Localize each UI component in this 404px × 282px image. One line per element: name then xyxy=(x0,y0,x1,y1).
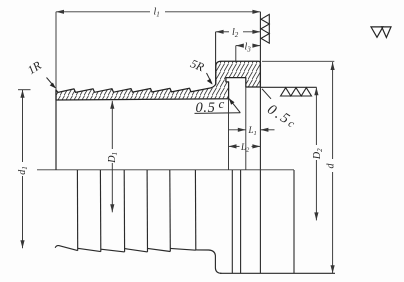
dim d1 xyxy=(18,90,31,249)
dim L1 xyxy=(229,128,275,132)
triangles on socket top xyxy=(281,88,312,96)
barrel left face xyxy=(55,90,57,170)
extension x=235.8 xyxy=(235,46,237,63)
dim D1 xyxy=(110,101,114,213)
svg-text:1R: 1R xyxy=(25,58,44,77)
roughness triangles stack (flange end face) xyxy=(261,14,269,43)
svg-text:d: d xyxy=(326,163,337,169)
corner mark two down triangles xyxy=(371,27,383,37)
svg-text:l2: l2 xyxy=(232,27,239,39)
extension line x=56 (l1 left) xyxy=(55,12,57,90)
dimension l1 xyxy=(56,10,260,14)
socket top line xyxy=(260,86,316,88)
svg-text:D2: D2 xyxy=(312,148,324,160)
socket bottom-half lines xyxy=(232,170,294,273)
extension x=228.5 xyxy=(228,99,230,170)
svg-text:c: c xyxy=(219,96,225,111)
svg-text:L1: L1 xyxy=(248,125,257,137)
svg-text:d1: d1 xyxy=(17,166,29,175)
bottom face + extension xyxy=(220,272,335,274)
dimension l2 xyxy=(216,30,261,34)
svg-text:5R: 5R xyxy=(188,56,206,74)
svg-text:l1: l1 xyxy=(154,7,160,19)
flange top extension to d xyxy=(262,60,334,62)
barrel and flange hatched section (upper half) xyxy=(56,61,260,100)
axis line xyxy=(37,169,294,171)
dimension l3 xyxy=(236,44,261,48)
svg-text:D1: D1 xyxy=(107,152,119,164)
svg-text:l3: l3 xyxy=(245,42,252,54)
dim d xyxy=(331,62,335,273)
bottom half: barb verticals xyxy=(77,170,195,252)
extension line x=260.4 full xyxy=(259,12,261,274)
svg-text:0.5c: 0.5c xyxy=(264,101,300,132)
dim D2 xyxy=(314,87,318,220)
dim L2 xyxy=(229,144,261,148)
svg-text:L2: L2 xyxy=(240,142,250,154)
extension x=245.8 xyxy=(245,87,247,170)
bottom tooth profile xyxy=(55,246,221,274)
note 0.5c right rotated xyxy=(264,101,300,132)
extension x=215.6 xyxy=(215,32,217,85)
